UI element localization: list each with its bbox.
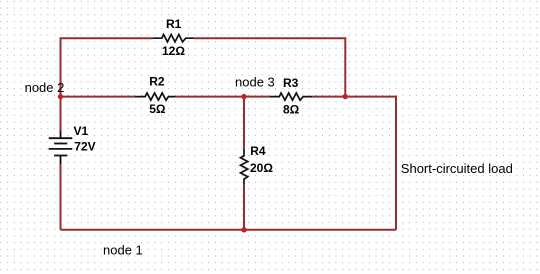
battery V1: [49, 131, 73, 164]
resistor R1: [153, 35, 194, 42]
resistor R2: [135, 93, 176, 100]
svg-text:R3: R3: [283, 76, 299, 90]
resistor R3: [270, 93, 313, 100]
junction right: [343, 94, 348, 99]
svg-text:node 1: node 1: [103, 243, 143, 258]
svg-text:72V: 72V: [74, 140, 95, 154]
svg-text:R4: R4: [250, 144, 266, 158]
svg-text:5Ω: 5Ω: [149, 102, 166, 116]
svg-text:Short-circuited load: Short-circuited load: [401, 161, 513, 176]
resistor R4: [241, 148, 248, 185]
svg-text:node 2: node 2: [25, 80, 65, 95]
junction bottom: [241, 227, 246, 232]
wire node2 to R2: [61, 96, 135, 98]
wire node2 to battery: [60, 97, 62, 132]
svg-text:20Ω: 20Ω: [250, 161, 273, 175]
svg-text:12Ω: 12Ω: [162, 44, 185, 58]
wire node3 to R4: [243, 97, 245, 149]
svg-text:8Ω: 8Ω: [283, 103, 300, 117]
wire bottom: [61, 229, 397, 231]
svg-text:node 3: node 3: [235, 75, 275, 90]
wire R2 to R3: [176, 96, 270, 98]
junction node 3: [241, 94, 246, 99]
svg-text:R1: R1: [166, 17, 182, 31]
wire top right segment: [194, 38, 345, 96]
junction node 2: [58, 94, 63, 99]
wire battery to bottom: [60, 164, 62, 230]
svg-text:R2: R2: [149, 75, 165, 89]
svg-text:V1: V1: [74, 124, 89, 138]
wire top left segment: [61, 38, 153, 96]
wire R3 to right junction and short-circuit loop: [312, 97, 396, 230]
wire R4 to bottom: [243, 185, 245, 230]
